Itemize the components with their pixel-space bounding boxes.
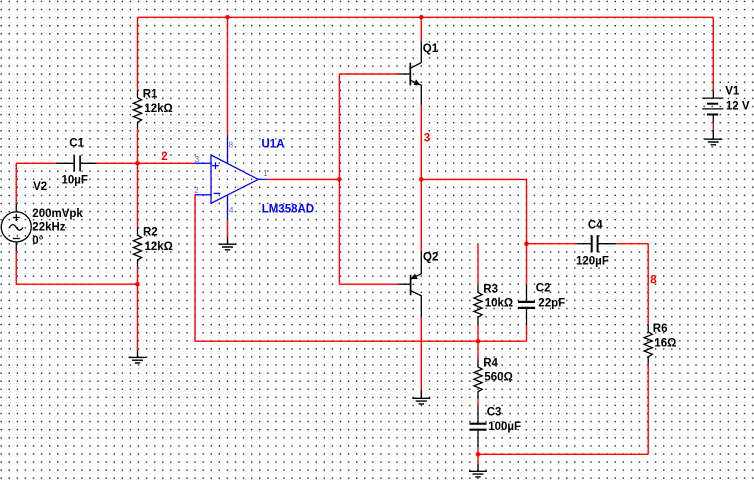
resistor R3 bbox=[474, 285, 482, 325]
svg-text:2: 2 bbox=[194, 186, 199, 195]
wire bottom return bbox=[478, 453, 648, 455]
wire C1 left bbox=[16, 162, 55, 164]
svg-text:4: 4 bbox=[229, 206, 234, 215]
svg-text:R4: R4 bbox=[483, 358, 498, 370]
svg-text:8: 8 bbox=[650, 274, 657, 286]
wire R4 top bbox=[477, 341, 479, 359]
node junction R3/R4 bbox=[476, 339, 481, 344]
resistor R4 bbox=[474, 360, 482, 399]
wire V1 bottom bbox=[712, 122, 714, 130]
node 3 junction bbox=[419, 177, 424, 182]
svg-text:U1A: U1A bbox=[262, 138, 285, 150]
svg-text:V1: V1 bbox=[725, 85, 740, 97]
wire Q1 collector to rail bbox=[420, 17, 422, 41]
label R6 bbox=[653, 323, 677, 350]
label C1 bbox=[62, 138, 88, 187]
wire V2 top bbox=[15, 163, 17, 203]
svg-text:22pF: 22pF bbox=[538, 298, 565, 310]
svg-text:LM358AD: LM358AD bbox=[262, 203, 314, 215]
label R3 bbox=[483, 283, 513, 309]
wire R1 column lower bbox=[137, 129, 139, 163]
wire top rail bbox=[138, 16, 714, 18]
wire V1 top bbox=[712, 17, 714, 90]
ground V1 bbox=[704, 130, 722, 145]
wire Q2 collector to ground bbox=[420, 316, 422, 390]
svg-text:2: 2 bbox=[161, 151, 167, 163]
wire R2 column upper bbox=[137, 163, 139, 228]
Q1 emitter arrow bbox=[414, 80, 420, 85]
svg-text:3: 3 bbox=[424, 132, 430, 144]
svg-text:C3: C3 bbox=[487, 407, 502, 419]
label V2 bbox=[32, 181, 83, 247]
wire feedback horizontal bbox=[195, 340, 527, 342]
svg-text:200mVpk: 200mVpk bbox=[32, 208, 83, 220]
svg-text:12kΩ: 12kΩ bbox=[145, 241, 173, 253]
wire node 2 horizontal bbox=[97, 162, 196, 164]
svg-text:10kΩ: 10kΩ bbox=[485, 298, 513, 310]
svg-text:V2: V2 bbox=[33, 181, 47, 193]
wire V2 bottom bbox=[16, 251, 137, 284]
svg-text:C4: C4 bbox=[588, 220, 603, 232]
ground C3 bbox=[469, 464, 487, 477]
resistor R1 bbox=[133, 90, 141, 129]
node 2 junction bbox=[135, 161, 140, 166]
wire R1 column upper bbox=[137, 17, 139, 90]
wire R6 column upper bbox=[647, 244, 649, 325]
svg-text:R1: R1 bbox=[143, 88, 158, 100]
wire op-amp output bbox=[267, 178, 340, 180]
resistor R2 bbox=[133, 228, 141, 267]
svg-text:16Ω: 16Ω bbox=[654, 337, 676, 349]
Q2 emitter arrow bbox=[411, 274, 417, 278]
node junction C4 tap bbox=[524, 241, 529, 246]
transistor Q2 bbox=[398, 252, 421, 317]
wire C4 right bbox=[616, 243, 648, 245]
svg-text:R2: R2 bbox=[143, 227, 158, 239]
svg-text:120µF: 120µF bbox=[576, 256, 609, 268]
node junction C3/R6 bbox=[476, 452, 481, 457]
wire op-amp pin 8 to rail bbox=[227, 17, 229, 135]
svg-text:R3: R3 bbox=[483, 283, 498, 295]
wire feedback vertical bbox=[194, 195, 196, 341]
svg-text:Q2: Q2 bbox=[423, 252, 438, 264]
svg-text:100µF: 100µF bbox=[488, 421, 521, 433]
capacitor C2 bbox=[518, 285, 535, 326]
svg-text:R6: R6 bbox=[653, 323, 668, 335]
label V1 bbox=[725, 85, 750, 112]
label R1 bbox=[143, 88, 173, 115]
svg-text:0°: 0° bbox=[32, 235, 43, 247]
label C4 bbox=[576, 220, 609, 268]
ground Q2 bbox=[412, 390, 430, 404]
label C3 bbox=[487, 407, 521, 433]
wire tap vertical to C2 bbox=[526, 179, 528, 284]
label R4 bbox=[483, 358, 513, 384]
transistor Q1 bbox=[398, 41, 421, 105]
node junction Q1/rail bbox=[419, 15, 424, 20]
resistor R6 bbox=[644, 325, 652, 364]
wire Q1 base bbox=[339, 73, 398, 75]
wire Q2 base bbox=[339, 283, 398, 285]
wire R4 to C3 bbox=[477, 399, 479, 407]
capacitor C4 bbox=[577, 235, 616, 252]
wire R3 column lower bbox=[477, 325, 479, 342]
wire R6 column lower bbox=[647, 364, 649, 454]
svg-text:22kHz: 22kHz bbox=[32, 222, 65, 234]
battery V1 bbox=[702, 91, 723, 123]
svg-text:12 V: 12 V bbox=[726, 100, 750, 112]
ground R2 bbox=[129, 350, 147, 363]
wire node 3 emitters bbox=[420, 105, 422, 252]
op-amp U1A bbox=[195, 135, 267, 220]
wire C2 bottom bbox=[526, 325, 528, 341]
svg-text:C2: C2 bbox=[536, 283, 551, 295]
wire op-amp pin 4 to ground bbox=[227, 220, 229, 237]
wire R2 column lower bbox=[137, 267, 139, 350]
node junction output bbox=[337, 177, 342, 182]
svg-text:560Ω: 560Ω bbox=[484, 372, 512, 384]
svg-text:3: 3 bbox=[195, 155, 200, 164]
ground op-amp pin 4 bbox=[219, 237, 237, 250]
wire C4 left bbox=[527, 243, 577, 245]
svg-text:10µF: 10µF bbox=[62, 174, 88, 186]
label C2 bbox=[536, 283, 565, 310]
capacitor C1 bbox=[56, 155, 97, 171]
node junction pin8/rail bbox=[225, 15, 230, 20]
capacitor C3 bbox=[470, 406, 487, 447]
svg-text:8: 8 bbox=[229, 140, 234, 149]
svg-text:1: 1 bbox=[263, 169, 268, 178]
svg-text:Q1: Q1 bbox=[423, 43, 439, 55]
wire C3 bottom bbox=[477, 447, 479, 464]
source V2 bbox=[1, 204, 31, 252]
svg-text:12kΩ: 12kΩ bbox=[144, 103, 172, 115]
svg-text:C1: C1 bbox=[69, 138, 84, 150]
node junction V2/R2 bbox=[135, 282, 140, 287]
label R2 bbox=[143, 227, 173, 254]
wire R3 column upper bbox=[477, 244, 479, 285]
wire node 3 right bbox=[421, 178, 526, 180]
wire mid vertical bases bbox=[338, 74, 340, 284]
